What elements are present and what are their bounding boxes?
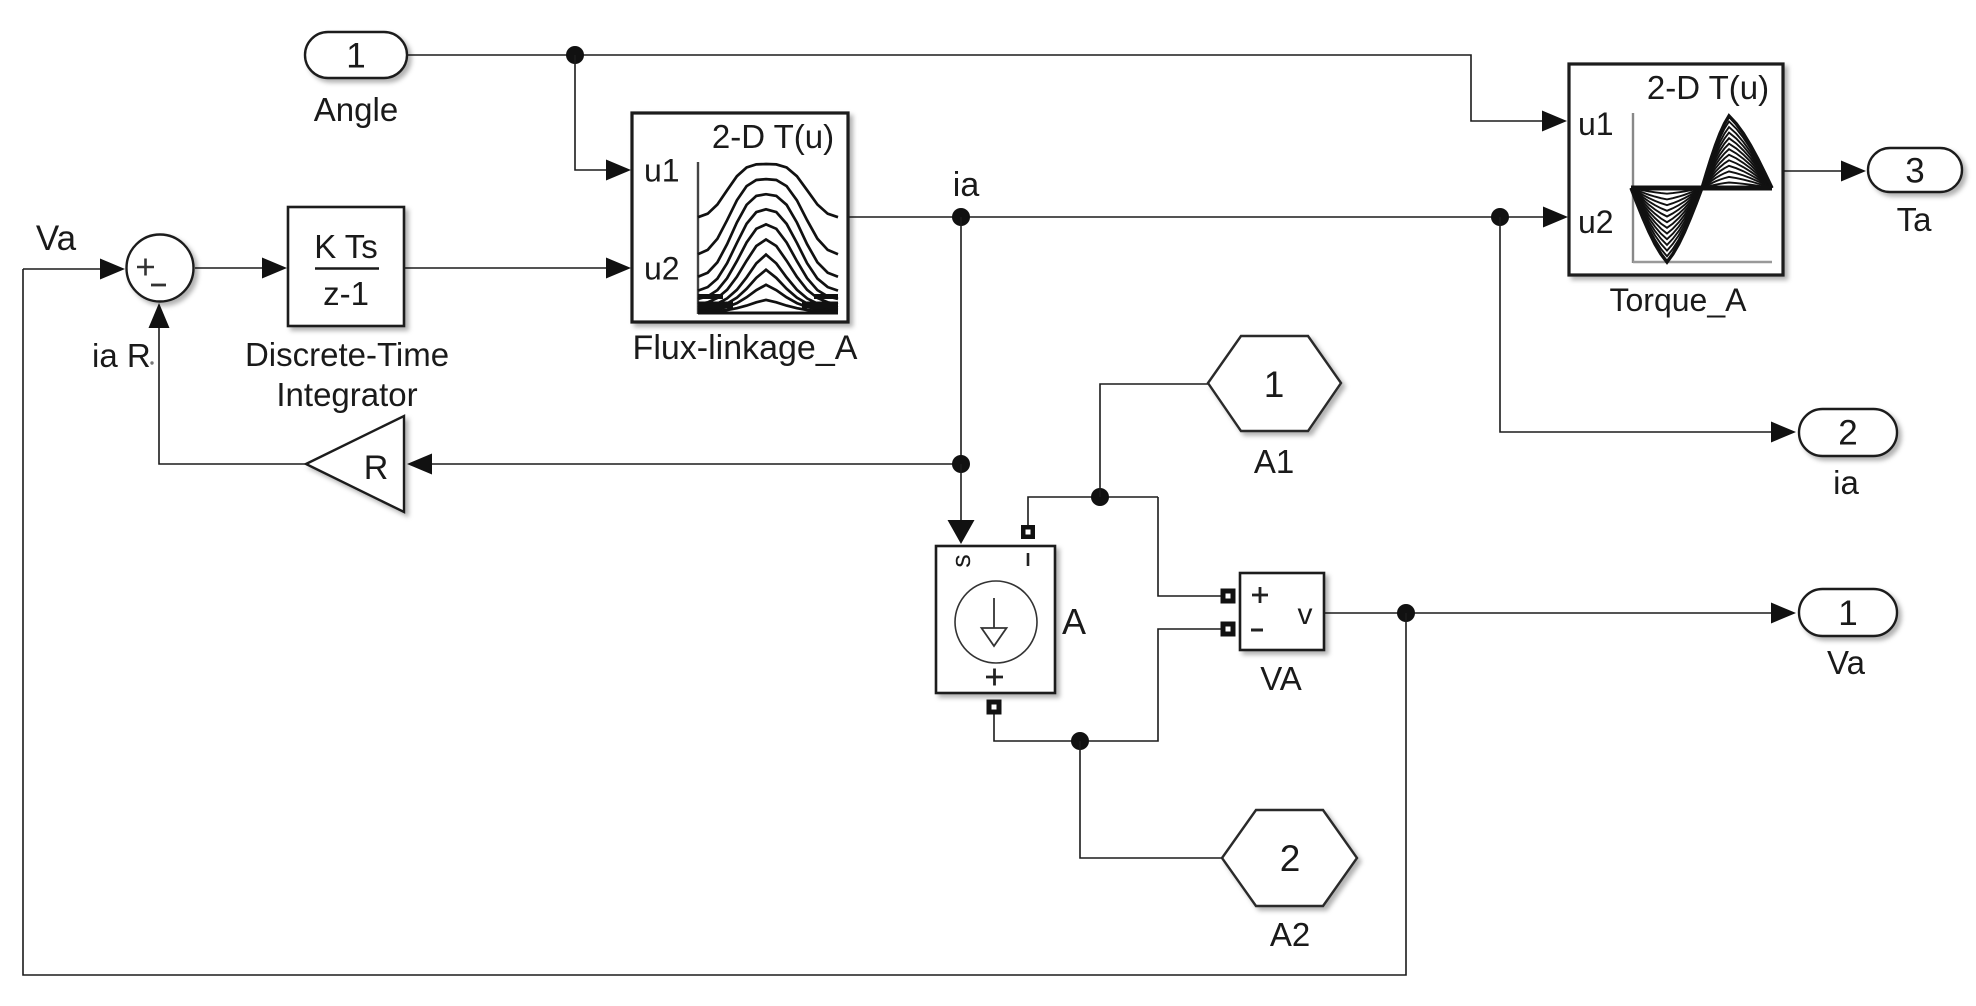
wire: node up to A1 hexagon — [1100, 384, 1212, 497]
node: Angle junction — [566, 46, 584, 64]
wire: Torque_A output to outport Ta — [1783, 170, 1843, 172]
svg-text:K Ts: K Ts — [314, 228, 378, 265]
A block top port square — [1021, 525, 1035, 539]
Torque_A block box — [1569, 64, 1783, 275]
wire: ia to outport 2 — [1500, 217, 1771, 432]
wire: ia down into source A — [960, 464, 962, 522]
svg-text:VA: VA — [1260, 660, 1302, 697]
wire: ia down to gain R — [432, 217, 961, 464]
svg-text:ia: ia — [953, 166, 980, 204]
wire: Angle port to junction — [405, 54, 575, 56]
svg-text:ia R: ia R — [92, 337, 151, 374]
Flux graph y-axis — [697, 162, 699, 314]
svg-text:v: v — [1298, 598, 1313, 631]
outport 3 Ta shape — [1868, 148, 1962, 192]
node: A-minus junction — [1091, 488, 1109, 506]
Torque graph axes — [1632, 113, 1634, 263]
integrator block box — [288, 207, 404, 326]
node: A2 junction — [1071, 732, 1089, 750]
svg-text:1: 1 — [1838, 594, 1857, 633]
wire: integrator to Flux u2 — [405, 267, 610, 269]
svg-text:Integrator: Integrator — [276, 376, 417, 413]
node: ia junction 2 — [1491, 208, 1509, 226]
svg-text:Va: Va — [36, 219, 77, 258]
wire: sum to integrator — [195, 267, 265, 269]
sum minus sign — [151, 284, 166, 287]
sum plus sign — [137, 266, 154, 269]
outport 2 ia shape — [1799, 409, 1897, 456]
sum block circle — [127, 235, 194, 302]
svg-text:1: 1 — [346, 37, 365, 76]
svg-text:Va: Va — [1827, 644, 1866, 681]
svg-text:Ta: Ta — [1897, 201, 1933, 238]
svg-text:A2: A2 — [1270, 916, 1310, 953]
VA block box — [1240, 573, 1324, 650]
svg-text:u2: u2 — [644, 251, 680, 287]
Flux graph bell curves — [698, 164, 838, 313]
wire: VA output to outport Va — [1324, 612, 1772, 614]
VA minus port square — [1221, 622, 1236, 637]
A block source circle — [955, 581, 1037, 663]
Torque zero line — [1631, 186, 1772, 191]
node: Va junction — [1397, 604, 1415, 622]
wire: junction to Torque_A u1 (elbow) — [575, 55, 1546, 121]
hexagon A1 shape — [1208, 336, 1341, 431]
svg-text:s: s — [946, 554, 976, 568]
svg-text:Torque_A: Torque_A — [1610, 282, 1748, 318]
svg-text:ia: ia — [1833, 464, 1859, 501]
wire: junction down to A2 hexagon — [1080, 741, 1226, 858]
svg-text:A: A — [1062, 601, 1086, 642]
inport 1 Angle shape — [305, 32, 407, 78]
wire: junction down to Flux u1 — [575, 55, 610, 170]
A block arrow symbol — [993, 598, 995, 628]
svg-text:3: 3 — [1905, 152, 1924, 191]
svg-text:u1: u1 — [644, 153, 680, 189]
wire: A plus port to VA minus (bottom) — [994, 629, 1222, 741]
outport 1 Va shape — [1799, 589, 1897, 636]
A block bottom port square — [987, 700, 1002, 715]
svg-text:u1: u1 — [1578, 106, 1614, 142]
Torque graph sine family — [1631, 116, 1772, 262]
VA minus sign — [1251, 629, 1263, 632]
svg-text:2: 2 — [1280, 838, 1301, 879]
source A block box — [936, 546, 1055, 693]
node: ia-R junction — [952, 455, 970, 473]
wire: A minus port up to node — [1028, 497, 1158, 526]
Flux-linkage_A block box — [632, 113, 848, 322]
hexagon A2 shape — [1222, 810, 1357, 906]
svg-text:A1: A1 — [1254, 443, 1294, 480]
wire: feedback into sum (left) — [23, 268, 103, 270]
A block plus sign — [986, 676, 1003, 679]
gain R triangle — [306, 416, 404, 512]
A block minus tick — [1027, 553, 1030, 566]
svg-text:2: 2 — [1838, 414, 1857, 453]
svg-text:u2: u2 — [1578, 204, 1614, 240]
wire: big feedback loop Va — [23, 269, 1406, 975]
node: ia junction 1 — [952, 208, 970, 226]
VA plus port square — [1221, 589, 1236, 604]
svg-text:Flux-linkage_A: Flux-linkage_A — [633, 329, 858, 367]
svg-text:1: 1 — [1264, 364, 1285, 405]
svg-text:2-D T(u): 2-D T(u) — [712, 118, 834, 155]
wire: ia line Flux output to Torque u2 — [848, 216, 1547, 218]
VA plus sign — [1252, 594, 1268, 597]
wire: node down to VA plus — [1158, 497, 1222, 596]
svg-text:Angle: Angle — [314, 91, 398, 128]
svg-text:R: R — [364, 449, 389, 487]
integrator fraction line — [315, 267, 379, 270]
svg-text:Discrete-Time: Discrete-Time — [245, 336, 449, 373]
wire: gain R output to sum minus — [159, 327, 306, 464]
svg-text:z-1: z-1 — [323, 275, 369, 312]
svg-text:2-D T(u): 2-D T(u) — [1647, 69, 1769, 106]
